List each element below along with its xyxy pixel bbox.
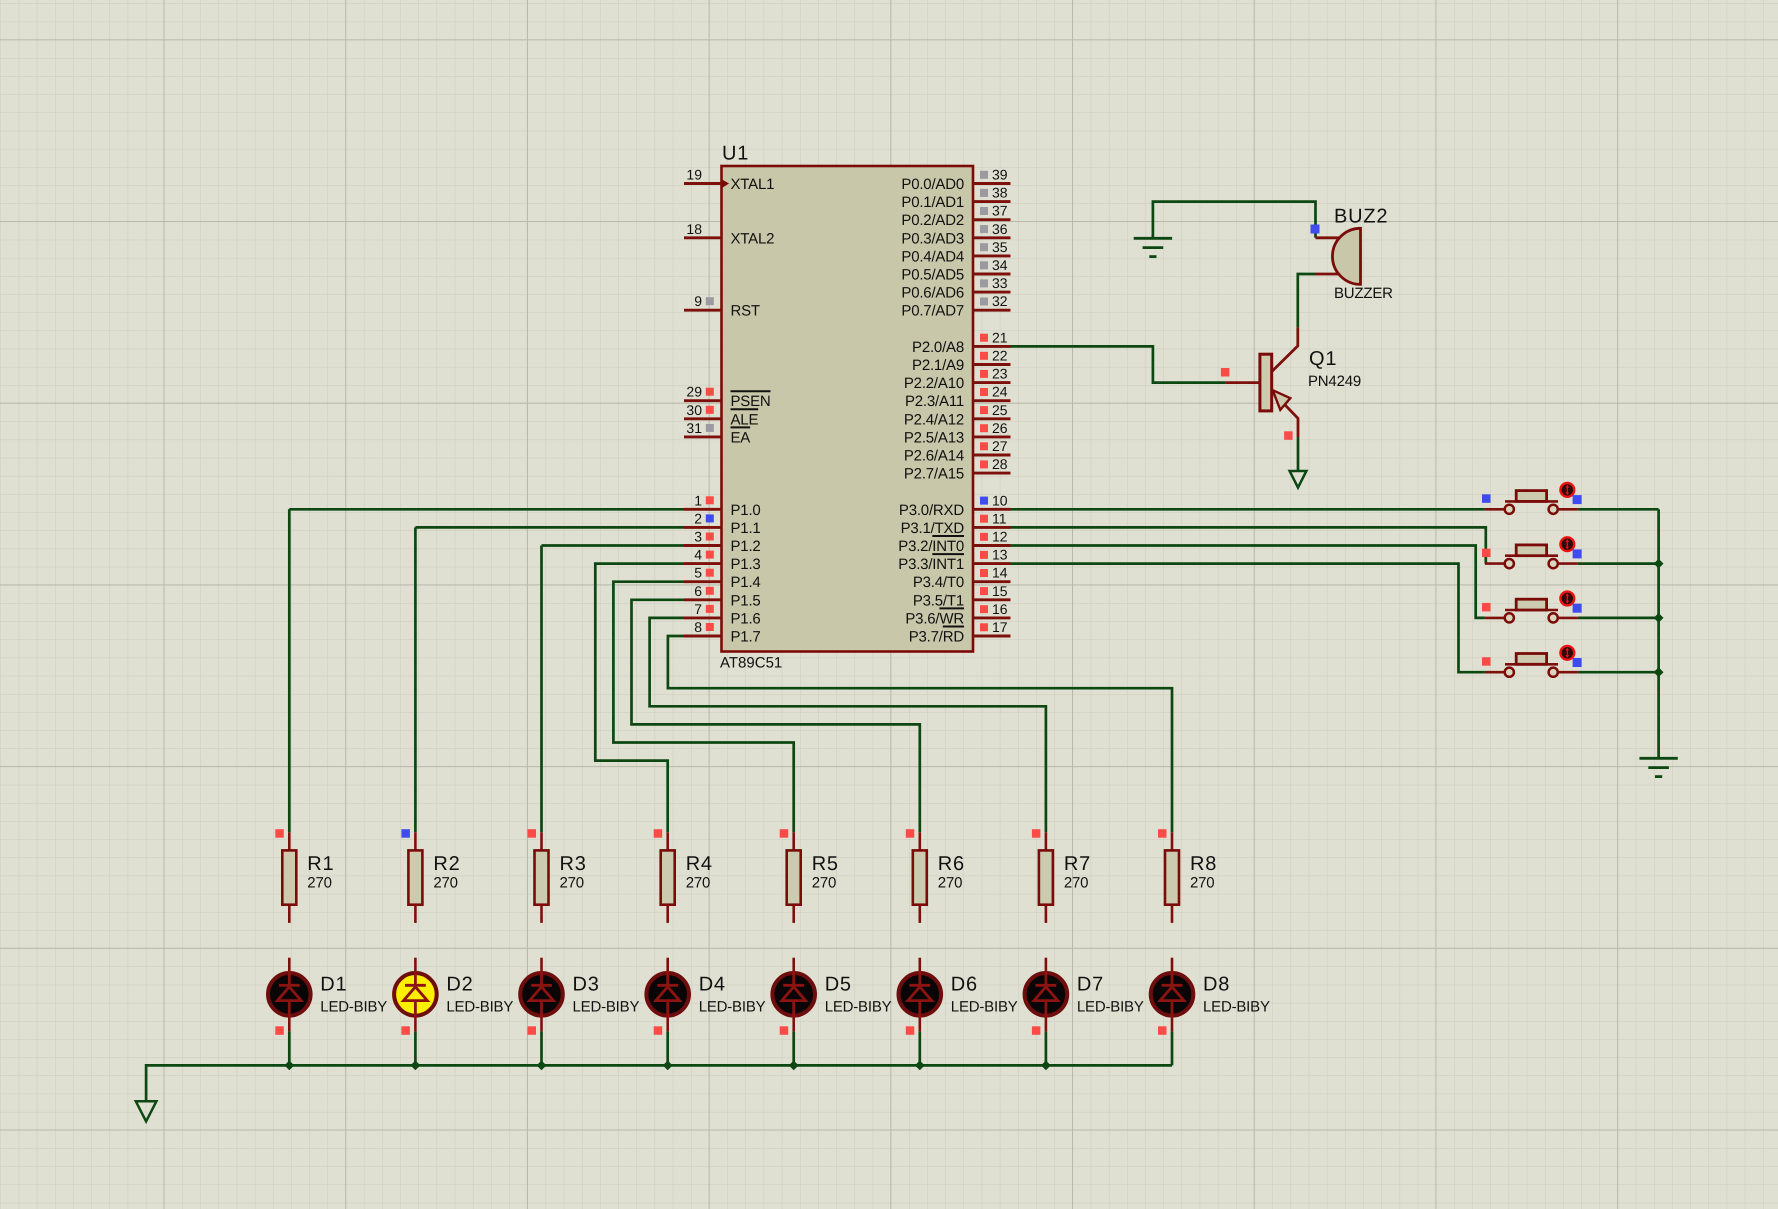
svg-text:D3: D3 <box>573 974 600 996</box>
svg-text:15: 15 <box>992 583 1008 599</box>
svg-text:D5: D5 <box>825 974 852 996</box>
svg-text:P0.2/AD2: P0.2/AD2 <box>901 212 964 229</box>
svg-text:LED-BIBY: LED-BIBY <box>699 999 766 1016</box>
svg-text:18: 18 <box>686 221 702 237</box>
svg-text:21: 21 <box>992 329 1008 345</box>
svg-text:P3.4/T0: P3.4/T0 <box>913 574 964 591</box>
svg-text:270: 270 <box>307 874 331 891</box>
svg-text:14: 14 <box>992 565 1008 581</box>
svg-text:13: 13 <box>992 547 1008 563</box>
svg-text:1: 1 <box>694 492 702 508</box>
svg-text:22: 22 <box>992 348 1008 364</box>
svg-text:24: 24 <box>992 384 1008 400</box>
svg-text:30: 30 <box>686 402 702 418</box>
svg-text:BUZ2: BUZ2 <box>1334 206 1388 228</box>
svg-text:P3.5/T1: P3.5/T1 <box>913 592 964 609</box>
svg-text:LED-BIBY: LED-BIBY <box>446 999 513 1016</box>
svg-text:P1.5: P1.5 <box>731 592 761 609</box>
svg-text:270: 270 <box>1190 874 1214 891</box>
svg-text:D1: D1 <box>320 974 347 996</box>
svg-text:P3.6/WR: P3.6/WR <box>905 610 964 627</box>
svg-text:23: 23 <box>992 366 1008 382</box>
svg-text:Q1: Q1 <box>1309 348 1337 370</box>
svg-text:P1.1: P1.1 <box>731 520 761 537</box>
svg-text:R7: R7 <box>1064 853 1091 875</box>
svg-text:P0.7/AD7: P0.7/AD7 <box>901 303 964 320</box>
svg-text:270: 270 <box>1064 874 1088 891</box>
svg-text:11: 11 <box>992 510 1007 526</box>
svg-text:D6: D6 <box>951 974 978 996</box>
svg-text:270: 270 <box>686 874 710 891</box>
svg-text:P1.6: P1.6 <box>731 610 761 627</box>
svg-text:270: 270 <box>560 874 584 891</box>
svg-text:25: 25 <box>992 402 1008 418</box>
svg-text:270: 270 <box>938 874 962 891</box>
svg-text:P0.6/AD6: P0.6/AD6 <box>901 285 964 302</box>
svg-text:P1.0: P1.0 <box>731 502 761 519</box>
svg-text:P2.3/A11: P2.3/A11 <box>905 393 964 410</box>
svg-text:XTAL1: XTAL1 <box>731 176 775 193</box>
svg-text:XTAL2: XTAL2 <box>731 230 775 247</box>
svg-text:10: 10 <box>992 492 1008 508</box>
svg-text:D4: D4 <box>699 974 726 996</box>
svg-text:P0.1/AD1: P0.1/AD1 <box>901 194 964 211</box>
svg-text:37: 37 <box>992 203 1008 219</box>
svg-text:5: 5 <box>694 565 702 581</box>
svg-text:38: 38 <box>992 185 1008 201</box>
svg-text:28: 28 <box>992 456 1008 472</box>
svg-text:9: 9 <box>694 293 702 309</box>
svg-text:P1.2: P1.2 <box>731 538 761 555</box>
svg-text:27: 27 <box>992 438 1008 454</box>
svg-text:R5: R5 <box>812 853 839 875</box>
svg-text:U1: U1 <box>722 143 749 165</box>
svg-text:29: 29 <box>686 384 702 400</box>
svg-text:P2.4/A12: P2.4/A12 <box>904 411 964 428</box>
svg-text:P0.5/AD5: P0.5/AD5 <box>901 267 964 284</box>
svg-text:RST: RST <box>731 303 760 320</box>
svg-text:PN4249: PN4249 <box>1308 373 1361 390</box>
svg-text:EA: EA <box>731 429 751 446</box>
svg-text:33: 33 <box>992 275 1008 291</box>
svg-text:8: 8 <box>694 619 702 635</box>
svg-text:26: 26 <box>992 420 1008 436</box>
svg-text:BUZZER: BUZZER <box>1334 285 1393 302</box>
svg-text:7: 7 <box>694 601 702 617</box>
svg-text:R1: R1 <box>307 853 334 875</box>
svg-text:P0.0/AD0: P0.0/AD0 <box>901 176 964 193</box>
svg-text:6: 6 <box>694 583 702 599</box>
svg-text:P1.3: P1.3 <box>731 556 761 573</box>
svg-text:2: 2 <box>694 510 702 526</box>
svg-text:P0.3/AD3: P0.3/AD3 <box>901 230 964 247</box>
svg-text:D7: D7 <box>1077 974 1104 996</box>
svg-text:LED-BIBY: LED-BIBY <box>825 999 892 1016</box>
svg-text:P2.6/A14: P2.6/A14 <box>904 448 964 465</box>
svg-text:LED-BIBY: LED-BIBY <box>1203 999 1270 1016</box>
svg-text:LED-BIBY: LED-BIBY <box>320 999 387 1016</box>
svg-text:P3.0/RXD: P3.0/RXD <box>899 502 964 519</box>
svg-text:LED-BIBY: LED-BIBY <box>1077 999 1144 1016</box>
svg-text:P3.3/INT1: P3.3/INT1 <box>898 556 964 573</box>
svg-text:P2.1/A9: P2.1/A9 <box>912 357 964 374</box>
svg-text:34: 34 <box>992 257 1008 273</box>
svg-text:LED-BIBY: LED-BIBY <box>951 999 1018 1016</box>
svg-text:R4: R4 <box>686 853 713 875</box>
svg-text:P2.0/A8: P2.0/A8 <box>912 339 964 356</box>
svg-text:3: 3 <box>694 529 702 545</box>
svg-text:270: 270 <box>812 874 836 891</box>
svg-text:12: 12 <box>992 529 1008 545</box>
svg-text:P3.7/RD: P3.7/RD <box>909 629 965 646</box>
svg-text:R6: R6 <box>938 853 965 875</box>
svg-text:31: 31 <box>686 420 702 436</box>
svg-text:P1.7: P1.7 <box>731 629 761 646</box>
svg-text:D2: D2 <box>446 974 473 996</box>
svg-text:39: 39 <box>992 167 1008 183</box>
svg-text:P1.4: P1.4 <box>731 574 761 591</box>
svg-text:R3: R3 <box>560 853 587 875</box>
svg-text:36: 36 <box>992 221 1008 237</box>
svg-text:P2.7/A15: P2.7/A15 <box>904 466 964 483</box>
svg-text:P2.5/A13: P2.5/A13 <box>904 429 964 446</box>
svg-text:17: 17 <box>992 619 1008 635</box>
svg-text:R2: R2 <box>433 853 460 875</box>
svg-text:270: 270 <box>433 874 457 891</box>
svg-text:PSEN: PSEN <box>731 393 771 410</box>
svg-text:P3.1/TXD: P3.1/TXD <box>901 520 965 537</box>
svg-text:35: 35 <box>992 239 1008 255</box>
svg-text:D8: D8 <box>1203 974 1230 996</box>
svg-text:16: 16 <box>992 601 1008 617</box>
svg-text:R8: R8 <box>1190 853 1217 875</box>
svg-text:P3.2/INT0: P3.2/INT0 <box>898 538 964 555</box>
svg-text:AT89C51: AT89C51 <box>720 654 782 671</box>
svg-text:32: 32 <box>992 293 1008 309</box>
svg-text:P2.2/A10: P2.2/A10 <box>904 375 964 392</box>
svg-text:ALE: ALE <box>731 411 759 428</box>
svg-text:19: 19 <box>686 167 702 183</box>
svg-text:LED-BIBY: LED-BIBY <box>573 999 640 1016</box>
svg-text:P0.4/AD4: P0.4/AD4 <box>901 248 964 265</box>
svg-text:4: 4 <box>694 547 702 563</box>
